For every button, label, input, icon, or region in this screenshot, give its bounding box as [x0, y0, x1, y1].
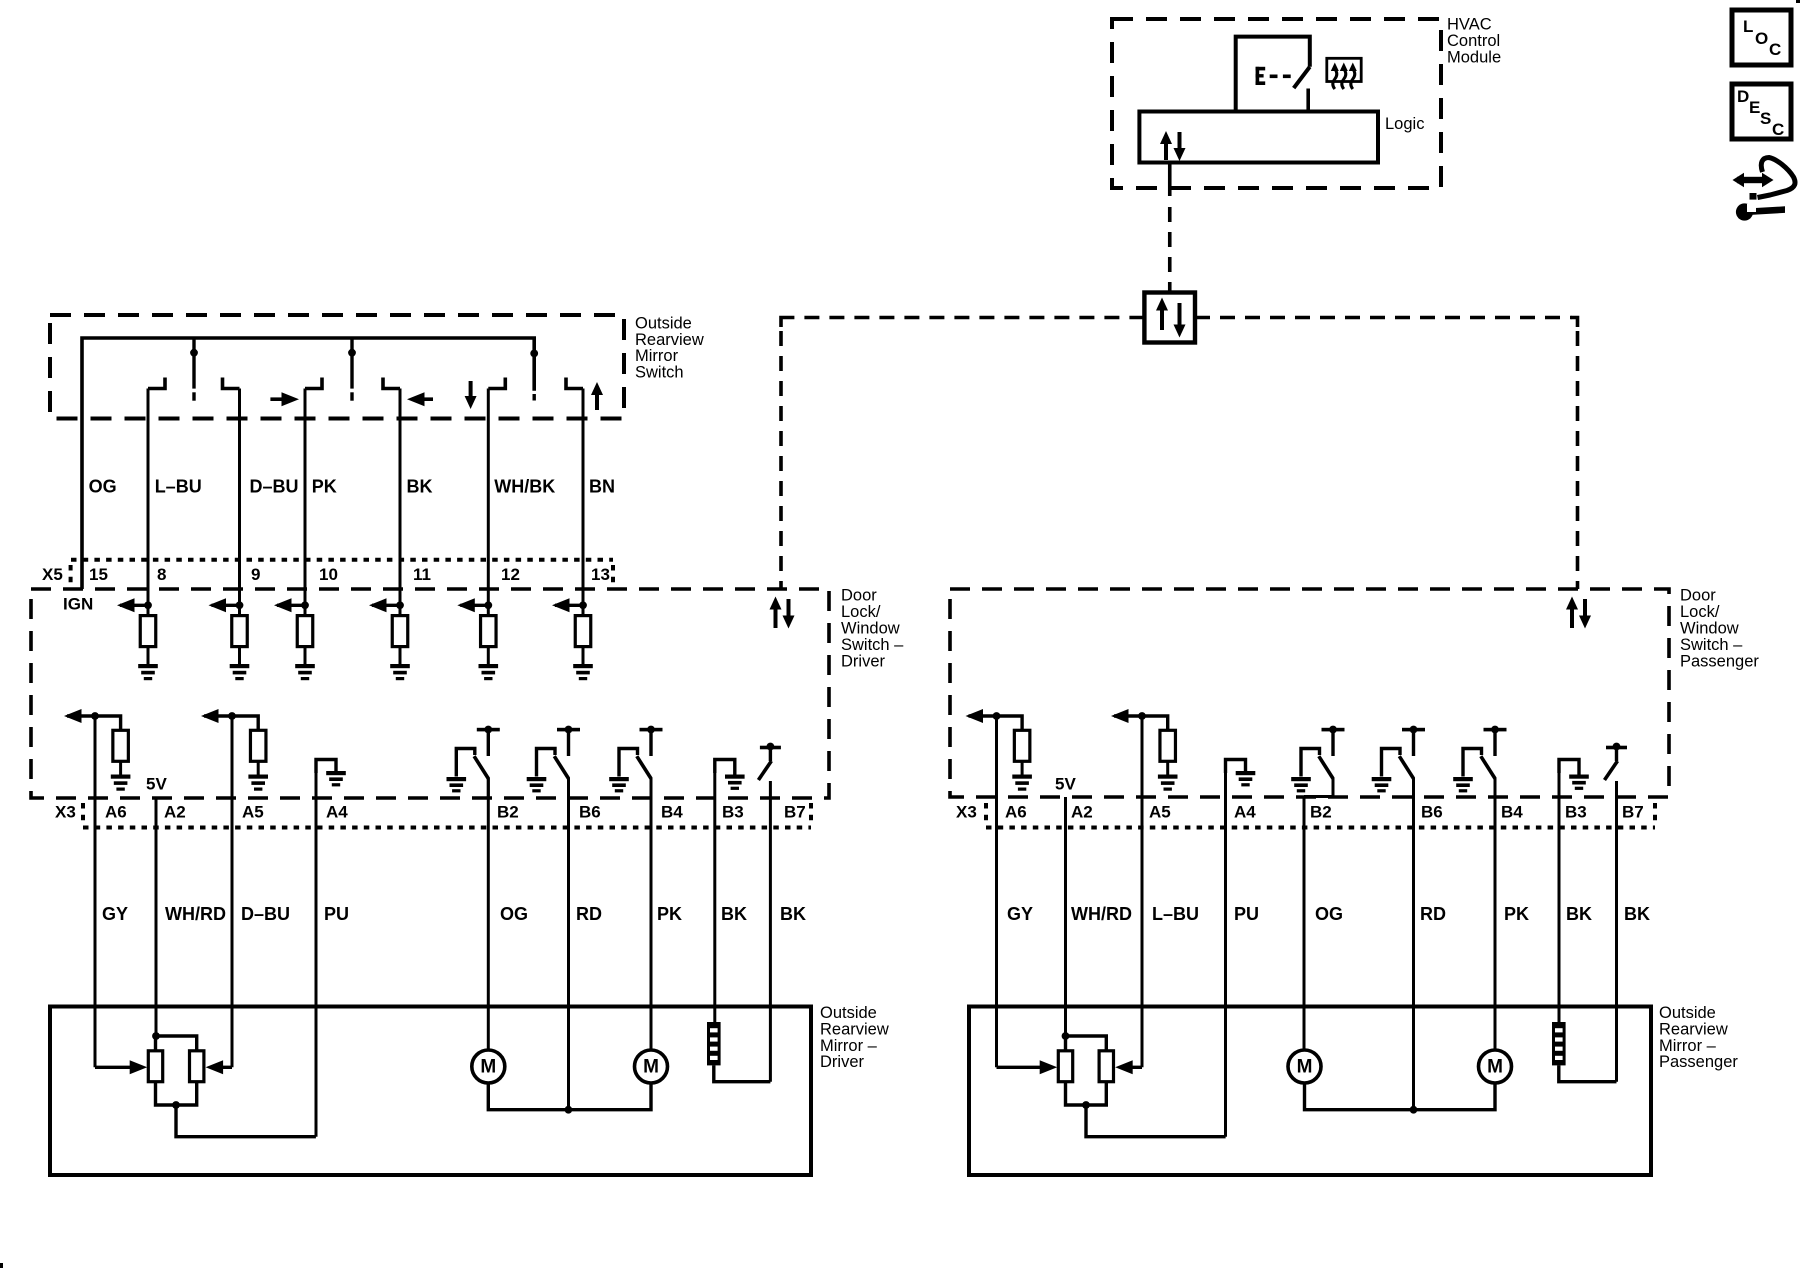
- svg-text:M: M: [643, 1057, 659, 1078]
- switch contact D-BU: [223, 378, 240, 389]
- svg-text:Logic: Logic: [1385, 115, 1424, 133]
- svg-text:8: 8: [157, 565, 166, 584]
- right corner: [1572, 318, 1578, 328]
- wire OG driver: [487, 778, 490, 1051]
- up arrow mirror-up: [591, 382, 603, 410]
- pulldown arrow pin 10: [274, 598, 305, 612]
- switch contact L-BU: [148, 378, 165, 389]
- window switch B6 passenger: [1372, 726, 1425, 798]
- actuator link 3: [533, 394, 536, 401]
- resistor lead pin 10: [304, 647, 307, 664]
- svg-text:OG: OG: [1315, 904, 1343, 924]
- svg-text:OG: OG: [500, 904, 528, 924]
- svg-text:WH/RD: WH/RD: [1071, 904, 1132, 924]
- pulldown arrow pin 12: [457, 598, 488, 612]
- svg-text:BK: BK: [721, 904, 747, 924]
- junction dot pin 13: [579, 601, 587, 609]
- wire L-BU pin 8: [147, 389, 150, 616]
- junction dot pin 12: [484, 601, 492, 609]
- switch pivot stub to logic: [1306, 89, 1310, 112]
- down arrow mirror-down: [465, 381, 477, 409]
- motor M passenger left: [1288, 1050, 1321, 1083]
- wire BK passenger: [1615, 781, 1618, 1082]
- svg-text:B7: B7: [784, 803, 806, 822]
- window switch B6 driver: [527, 726, 580, 798]
- svg-text:BK: BK: [1624, 904, 1650, 924]
- junction dot A5: [228, 712, 236, 720]
- svg-text:12: 12: [501, 565, 520, 584]
- svg-text:M: M: [1487, 1057, 1503, 1078]
- svg-text:A5: A5: [242, 803, 264, 822]
- svg-text:PU: PU: [324, 904, 349, 924]
- svg-text:B2: B2: [497, 803, 519, 822]
- wire RD passenger: [1412, 778, 1415, 1110]
- svg-text:M: M: [1297, 1057, 1313, 1078]
- svg-text:B3: B3: [722, 803, 744, 822]
- window switch B4 passenger: [1453, 726, 1506, 798]
- logic up/down arrows: [1160, 131, 1186, 161]
- svg-text:L–BU: L–BU: [1152, 904, 1199, 924]
- wire WH/RD passenger: [1064, 797, 1067, 1036]
- svg-text:X3: X3: [55, 803, 76, 822]
- branch wire A6: [95, 716, 121, 730]
- heater element passenger: [1552, 1022, 1566, 1065]
- ground A6: [111, 775, 131, 791]
- switch contact PK: [305, 378, 322, 389]
- ground A6 passenger: [1012, 775, 1032, 791]
- svg-text:OG: OG: [89, 477, 117, 497]
- wire PU passenger: [1224, 773, 1227, 1137]
- ground pin 9: [230, 664, 250, 680]
- wire OG passenger: [1303, 797, 1306, 1051]
- svg-text:BN: BN: [589, 477, 615, 497]
- junction dot actuator 1: [190, 349, 198, 357]
- resistor lead pin 11: [399, 647, 402, 664]
- resistor pin 13: [575, 616, 591, 647]
- X3 passenger left tick: [984, 803, 988, 824]
- X3 driver left tick: [81, 803, 85, 824]
- resistor pin 12: [481, 616, 497, 647]
- pulldown arrow pin 13: [552, 598, 583, 612]
- svg-text:D: D: [1737, 87, 1749, 106]
- sensor output wire driver: [176, 1105, 316, 1137]
- svg-text:BK: BK: [1566, 904, 1592, 924]
- ground pin 8: [138, 664, 158, 680]
- heater return wire passenger: [1559, 1065, 1617, 1081]
- svg-text:IGN: IGN: [63, 595, 93, 614]
- sensor resistor left driver: [148, 1051, 162, 1082]
- X5 right tick: [611, 565, 615, 587]
- heater element driver: [707, 1022, 721, 1065]
- dashed serial data drop: [1168, 207, 1172, 293]
- svg-text:S: S: [1760, 109, 1771, 128]
- bridge bottom passenger: [1066, 1082, 1107, 1105]
- bridge output dot driver: [172, 1101, 180, 1109]
- svg-text:PK: PK: [657, 904, 682, 924]
- pulldown arrow pin 8: [117, 598, 148, 612]
- RD junction dot driver: [565, 1106, 573, 1114]
- dashed data drop to driver switch: [779, 331, 783, 589]
- junction dot pin 9: [236, 601, 244, 609]
- sense arrow A5: [201, 709, 232, 723]
- ground pin 11: [390, 664, 410, 680]
- window switch B4 driver: [609, 726, 662, 798]
- wire GY driver: [94, 716, 97, 1067]
- junction dot pin 10: [301, 601, 309, 609]
- svg-text:M: M: [480, 1057, 496, 1078]
- svg-text:B2: B2: [1310, 803, 1332, 822]
- switch contact BK: [383, 378, 400, 389]
- svg-text:15: 15: [89, 565, 108, 584]
- wire RD driver: [567, 778, 570, 1110]
- sensor resistor right passenger: [1099, 1051, 1113, 1082]
- svg-text:BK: BK: [780, 904, 806, 924]
- motor M driver right: [635, 1050, 668, 1083]
- svg-text:A4: A4: [1234, 803, 1256, 822]
- dashed data line right: [1195, 316, 1572, 320]
- svg-text:5V: 5V: [146, 774, 167, 793]
- svg-text:D–BU: D–BU: [250, 477, 299, 497]
- wire D-BU driver: [231, 716, 234, 1067]
- svg-text:PK: PK: [1504, 904, 1529, 924]
- heat squiggle arrows: [1331, 63, 1357, 90]
- svg-text:A6: A6: [1005, 803, 1027, 822]
- switch contact WH/BK: [488, 378, 505, 389]
- resistor lead pin 12: [487, 647, 490, 664]
- svg-text:WH/BK: WH/BK: [494, 477, 555, 497]
- GY feed arrow driver: [95, 1060, 147, 1074]
- actuator link 1: [192, 338, 195, 401]
- junction dot pin 8: [144, 601, 152, 609]
- mirror adjust icon: [1733, 158, 1796, 221]
- svg-text:B4: B4: [1501, 803, 1523, 822]
- wire GY passenger: [995, 716, 998, 1067]
- wire BK passenger: [1558, 773, 1561, 1022]
- page edge mark top-right: [1796, 0, 1800, 3]
- resistor pin 9: [232, 616, 248, 647]
- resistor lead A5: [257, 761, 260, 774]
- svg-text:GY: GY: [1007, 904, 1033, 924]
- wire WH/RD driver: [155, 797, 158, 1036]
- junction dot A6 passenger: [993, 712, 1001, 720]
- dashed data drop to passenger switch: [1576, 331, 1580, 589]
- right arrow mirror-left/right: [270, 392, 299, 406]
- D-BU feed arrow driver: [206, 1060, 232, 1074]
- wire WH/BK pin 12: [487, 389, 490, 616]
- switch contact BN: [566, 378, 583, 389]
- mirror-select switch box U1: [1236, 37, 1310, 112]
- actuator link 2: [350, 338, 353, 401]
- sense arrow A6 passenger: [966, 709, 997, 723]
- sensor resistor left passenger: [1058, 1051, 1072, 1082]
- resistor pin 11: [392, 616, 408, 647]
- wire BK pin 11: [399, 389, 402, 616]
- window switch B2 driver: [447, 726, 500, 798]
- svg-text:D–BU: D–BU: [241, 904, 290, 924]
- junction dot pin 11: [396, 601, 404, 609]
- connector up/down arrows: [1156, 298, 1186, 338]
- ground hook A4 driver: [316, 760, 346, 787]
- momentary switch B7 driver: [758, 743, 781, 780]
- bridge bottom driver: [156, 1082, 197, 1105]
- position sensor bridge passenger: [1066, 1036, 1107, 1051]
- passenger entry up/down arrows: [1566, 597, 1591, 629]
- svg-text:A2: A2: [1071, 803, 1093, 822]
- dashed mechanical link: [1270, 75, 1291, 79]
- page edge mark bottom-left: [0, 1263, 3, 1268]
- ground hook A4 passenger: [1226, 760, 1256, 787]
- resistor A5 passenger: [1160, 730, 1176, 761]
- resistor lead pin 9: [238, 647, 241, 664]
- ground hook B3 passenger: [1559, 760, 1589, 790]
- svg-text:C: C: [1769, 40, 1781, 59]
- svg-text:A5: A5: [1149, 803, 1171, 822]
- svg-text:13: 13: [591, 565, 610, 584]
- momentary switch B7 passenger: [1605, 743, 1628, 780]
- svg-text:PK: PK: [312, 477, 337, 497]
- junction dot actuator 3: [530, 350, 538, 358]
- Outside Rearview Mirror Passenger box: [969, 1007, 1651, 1176]
- branch wire A5: [232, 716, 258, 730]
- Door Lock Window Switch Passenger dashed box: [950, 589, 1669, 797]
- motor bottom bus driver: [488, 1083, 651, 1110]
- junction dot A5 passenger: [1138, 712, 1146, 720]
- svg-text:A2: A2: [164, 803, 186, 822]
- wire PK driver: [650, 778, 653, 1051]
- LOC icon box: [1732, 10, 1791, 65]
- resistor A6 passenger: [1014, 730, 1030, 761]
- Outside Rearview Mirror Driver box: [50, 1007, 811, 1176]
- motor bottom bus passenger: [1305, 1083, 1496, 1110]
- X3 driver right tick: [809, 803, 813, 824]
- driver entry up/down arrows: [770, 597, 795, 629]
- bridge output dot passenger: [1082, 1101, 1090, 1109]
- connector X3 driver dotted line: [83, 826, 811, 830]
- svg-text:C: C: [1772, 120, 1784, 139]
- resistor lead pin 8: [147, 647, 150, 664]
- resistor pin 8: [140, 616, 156, 647]
- pulldown arrow pin 9: [209, 598, 240, 612]
- wire OG pin 15: [81, 338, 84, 589]
- svg-text:B7: B7: [1622, 803, 1644, 822]
- svg-text:RD: RD: [576, 904, 602, 924]
- position sensor bridge driver: [156, 1036, 197, 1051]
- svg-text:A4: A4: [326, 803, 348, 822]
- resistor lead A6: [119, 761, 122, 774]
- E symbol (mirror select): [1256, 67, 1266, 85]
- sense arrow A6: [64, 709, 95, 723]
- sensor output wire passenger: [1086, 1105, 1226, 1137]
- HVAC Control Module dashed box: [1112, 19, 1441, 188]
- svg-text:B6: B6: [579, 803, 601, 822]
- branch wire A6 passenger: [997, 716, 1023, 730]
- sensor resistor right driver: [190, 1051, 204, 1082]
- ground pin 12: [479, 664, 499, 680]
- resistor pin 10: [297, 616, 313, 647]
- DESC icon box: [1732, 84, 1791, 139]
- RD junction dot passenger: [1410, 1106, 1418, 1114]
- ground pin 13: [573, 664, 593, 680]
- svg-text:B4: B4: [661, 803, 683, 822]
- svg-text:9: 9: [251, 565, 260, 584]
- motor M passenger right: [1479, 1050, 1512, 1083]
- serial data connector box: [1144, 293, 1195, 343]
- svg-text:A6: A6: [105, 803, 127, 822]
- L-BU feed arrow passenger: [1115, 1060, 1142, 1074]
- wire logic to serial-data node: [1168, 163, 1172, 197]
- svg-text:WH/RD: WH/RD: [165, 904, 226, 924]
- Door Lock Window Switch Driver dashed box: [31, 589, 829, 798]
- X3 passenger right tick: [1653, 803, 1657, 824]
- wire BK driver: [713, 773, 716, 1022]
- connector X5 dotted line: [71, 558, 613, 562]
- svg-text:X5: X5: [42, 565, 63, 584]
- dashed data line left: [787, 316, 1144, 320]
- resistor lead A5 passenger: [1166, 761, 1169, 774]
- X5 left tick: [69, 565, 73, 587]
- resistor lead pin 13: [582, 647, 585, 664]
- svg-text:B3: B3: [1565, 803, 1587, 822]
- resistor A6: [113, 730, 129, 761]
- pulldown arrow pin 11: [369, 598, 400, 612]
- resistor A5: [250, 730, 266, 761]
- wire L-BU passenger: [1141, 716, 1144, 1067]
- switch blade in HVAC: [1294, 67, 1310, 88]
- motor M driver left: [472, 1050, 505, 1083]
- ground pin 10: [295, 664, 315, 680]
- svg-text:5V: 5V: [1055, 774, 1076, 793]
- svg-text:X3: X3: [956, 803, 977, 822]
- wire D-BU pin 9: [238, 389, 241, 616]
- svg-text:PU: PU: [1234, 904, 1259, 924]
- svg-text:L: L: [1743, 17, 1753, 36]
- heated mirror indicator box: [1327, 58, 1361, 81]
- svg-text:11: 11: [413, 565, 431, 584]
- branch wire A5 passenger: [1142, 716, 1168, 730]
- junction dot actuator 2: [348, 349, 356, 357]
- heater return wire driver: [714, 1065, 771, 1081]
- connector X3 passenger dotted line: [986, 826, 1655, 830]
- svg-text:L–BU: L–BU: [155, 477, 202, 497]
- svg-text:B6: B6: [1421, 803, 1443, 822]
- wire BN pin 13: [582, 389, 585, 616]
- bridge junction dot driver: [152, 1032, 160, 1040]
- wire BK driver: [769, 781, 772, 1082]
- wire PK passenger: [1494, 778, 1497, 1051]
- window switch B2 passenger: [1291, 726, 1344, 797]
- bridge junction dot passenger: [1062, 1032, 1070, 1040]
- sense arrow A5 passenger: [1111, 709, 1142, 723]
- ground A5 passenger: [1158, 775, 1178, 791]
- left arrow mirror-left/right: [407, 392, 433, 406]
- svg-text:O: O: [1755, 29, 1768, 48]
- svg-text:RD: RD: [1420, 904, 1446, 924]
- Outside Rearview Mirror Switch dashed box: [50, 315, 624, 419]
- svg-text:10: 10: [319, 565, 338, 584]
- GY feed arrow passenger: [997, 1060, 1058, 1074]
- junction dot A6: [91, 712, 99, 720]
- svg-text:GY: GY: [102, 904, 128, 924]
- ground hook B3 driver: [715, 760, 745, 790]
- left corner: [781, 318, 787, 328]
- wire PK pin 10: [304, 389, 307, 616]
- supply bus wire: [82, 338, 534, 589]
- Logic box: [1139, 112, 1378, 163]
- ground A5: [248, 775, 268, 791]
- wire PU driver: [315, 773, 318, 1137]
- svg-text:BK: BK: [407, 477, 433, 497]
- resistor lead A6 passenger: [1021, 761, 1024, 774]
- svg-text:E: E: [1749, 98, 1760, 117]
